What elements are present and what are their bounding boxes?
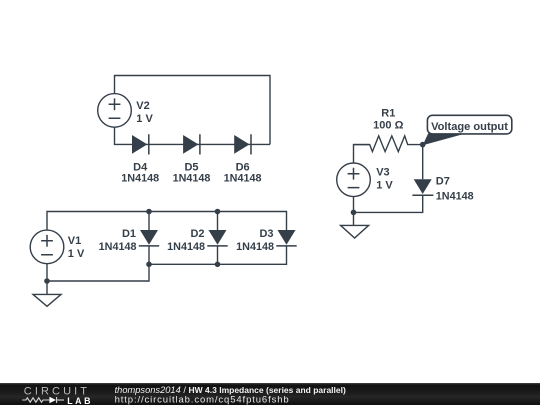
svg-text:LAB: LAB bbox=[67, 396, 93, 405]
svg-text:1 V: 1 V bbox=[136, 113, 153, 125]
svg-text:1 V: 1 V bbox=[376, 179, 393, 191]
svg-text:R1: R1 bbox=[381, 108, 395, 120]
svg-text:http://circuitlab.com/cq54fptu: http://circuitlab.com/cq54fptu6fshb bbox=[115, 394, 290, 405]
svg-text:1N4148: 1N4148 bbox=[121, 172, 159, 184]
svg-text:V2: V2 bbox=[136, 100, 149, 112]
svg-text:1N4148: 1N4148 bbox=[436, 190, 474, 202]
svg-text:V1: V1 bbox=[68, 235, 81, 247]
svg-text:100 Ω: 100 Ω bbox=[373, 120, 403, 132]
svg-text:1 V: 1 V bbox=[68, 248, 85, 260]
svg-text:1N4148: 1N4148 bbox=[99, 241, 137, 253]
svg-text:1N4148: 1N4148 bbox=[167, 241, 205, 253]
svg-text:1N4148: 1N4148 bbox=[236, 241, 274, 253]
svg-text:1N4148: 1N4148 bbox=[173, 172, 211, 184]
svg-text:D1: D1 bbox=[122, 228, 136, 240]
svg-text:V3: V3 bbox=[376, 166, 389, 178]
svg-text:Voltage output: Voltage output bbox=[431, 121, 508, 133]
svg-text:D7: D7 bbox=[436, 175, 450, 187]
svg-text:1N4148: 1N4148 bbox=[224, 172, 262, 184]
svg-text:D2: D2 bbox=[190, 228, 204, 240]
svg-text:D3: D3 bbox=[259, 228, 273, 240]
